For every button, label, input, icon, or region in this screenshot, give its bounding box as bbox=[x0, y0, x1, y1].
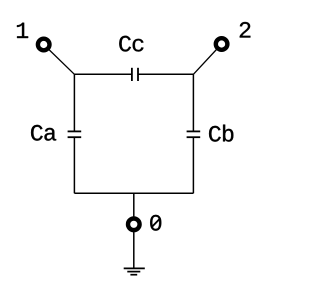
wire: diagonal from terminal 2 to node B bbox=[193, 44, 221, 74]
terminal (port) 1 bbox=[38, 39, 50, 51]
wire: top rail right (Cc right plate to node B) bbox=[138, 73, 193, 75]
capacitor Cb plates bbox=[187, 131, 201, 137]
wire: left rail lower (Ca bottom plate to bottom rail) bbox=[73, 137, 75, 193]
capacitor Cb value label bbox=[209, 125, 233, 142]
ground symbol bbox=[124, 268, 145, 274]
capacitor Cc value label bbox=[119, 36, 143, 52]
capacitor Ca value label bbox=[31, 125, 56, 141]
wire: right rail upper (node B to Cb top plate) bbox=[192, 74, 194, 131]
wire: top rail left (node A to Cc left plate) bbox=[74, 73, 131, 75]
wire: left rail upper (node A to Ca top plate) bbox=[73, 74, 75, 131]
terminal (port) 0 bbox=[128, 219, 140, 231]
node label 0 (slashed zero) bbox=[150, 215, 161, 231]
wire: bottom rail bbox=[74, 192, 193, 194]
node label 2 bbox=[240, 22, 251, 38]
node label 1 bbox=[17, 23, 28, 38]
wire: diagonal from terminal 1 to node A bbox=[44, 45, 75, 75]
capacitor Cc plates bbox=[132, 68, 138, 81]
wire: terminal 0 to ground bbox=[133, 224, 135, 268]
wire: middle stub from bottom rail to terminal 0 bbox=[133, 193, 135, 224]
capacitor Ca plates bbox=[68, 131, 82, 137]
terminal (port) 2 bbox=[216, 38, 228, 50]
wire: right rail lower (Cb bottom plate to bottom rail) bbox=[192, 137, 194, 193]
